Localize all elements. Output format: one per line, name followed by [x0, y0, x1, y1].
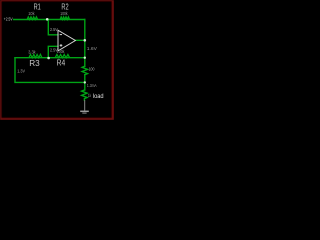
svg-text:1.3V: 1.3V	[17, 68, 25, 73]
svg-text:100k: 100k	[60, 11, 68, 16]
svg-text:R4: R4	[57, 57, 66, 67]
svg-text:3.3k: 3.3k	[28, 49, 36, 54]
svg-text:10k: 10k	[28, 11, 35, 16]
svg-text:100: 100	[89, 67, 95, 72]
svg-text:R1: R1	[34, 1, 41, 11]
svg-text:R3: R3	[29, 58, 40, 68]
svg-text:R2: R2	[61, 1, 68, 11]
svg-text:+2.5V: +2.5V	[4, 16, 13, 21]
svg-text:100k: 100k	[57, 49, 65, 54]
svg-text:1.6V: 1.6V	[87, 46, 97, 51]
svg-text:1.3mA: 1.3mA	[87, 83, 97, 88]
svg-text:2.5V: 2.5V	[50, 27, 58, 32]
svg-text:load: load	[93, 93, 104, 100]
